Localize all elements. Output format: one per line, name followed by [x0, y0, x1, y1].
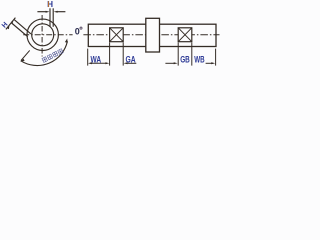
- keyway slot line left: [49, 8, 51, 26]
- label H left stem tint: [48, 1, 49, 7]
- WB leader line: [206, 62, 214, 64]
- inner circle: [32, 24, 54, 46]
- svg-text:0: 0: [75, 27, 80, 37]
- extension line shaft left end: [87, 49, 89, 66]
- outer circle: [27, 19, 58, 50]
- WA dimension line: [90, 62, 107, 64]
- WA arrow right: [105, 62, 109, 64]
- rotated keyway slot line A: [14, 20, 31, 34]
- keyway slot line right: [52, 8, 54, 27]
- angle dimension arc: [21, 41, 68, 65]
- bearing box 2 X diagonal 2: [178, 28, 192, 42]
- svg-text:GA: GA: [126, 54, 137, 64]
- bearing box 1: [110, 28, 124, 42]
- GA arrow left-pointing: [124, 62, 128, 64]
- rotated dimension arrow upper: [11, 20, 14, 23]
- svg-text:WB: WB: [194, 54, 205, 64]
- GB arrow right-pointing: [174, 62, 178, 64]
- vertical centerline: [41, 15, 43, 57]
- glyph block 2: [47, 54, 53, 60]
- dimension H arrow left-pointing: [54, 11, 58, 13]
- WA arrow left: [88, 62, 92, 64]
- GA dimension line: [126, 62, 136, 64]
- rotated keyway slot line B: [12, 23, 28, 37]
- dimension H line left segment: [37, 11, 46, 13]
- shaft body rectangle: [88, 24, 216, 46]
- angle text 角度指定 drawn as glyph blocks: [42, 49, 63, 63]
- dimension H line right segment: [57, 11, 66, 13]
- angle arc radial extension line: [21, 50, 30, 60]
- horizontal centerline right through shaft: [83, 34, 219, 36]
- horizontal centerline left of 0 label: [23, 34, 72, 36]
- svg-text:GB: GB: [180, 54, 190, 64]
- svg-text:WA: WA: [91, 54, 102, 64]
- extension line bearing1 right: [122, 43, 124, 66]
- extension line bearing2 left: [177, 43, 179, 66]
- glyph block 1: [42, 57, 48, 63]
- bearing box 2 X diagonal 1: [178, 28, 192, 42]
- center block: [146, 18, 160, 52]
- angle arc arrowhead right: [65, 39, 68, 43]
- angle arc arrowhead left: [20, 59, 24, 62]
- dimension H arrow right-pointing: [46, 11, 50, 13]
- extension line shaft right end: [215, 49, 217, 66]
- bearing box 1 X diagonal 2: [110, 28, 124, 42]
- bearing box 2: [178, 28, 192, 42]
- extension line bearing1 left: [109, 43, 111, 66]
- glyph block 3: [52, 51, 58, 57]
- degree symbol: [80, 27, 82, 29]
- rotated dimension line: [6, 18, 16, 30]
- WB arrow right-pointing: [211, 62, 215, 64]
- extension line bearing2 right: [191, 43, 193, 66]
- bearing box 1 X diagonal 1: [110, 28, 124, 42]
- GB leader line: [165, 62, 175, 64]
- glyph block 4: [58, 49, 64, 55]
- rotated dimension arrow lower: [7, 26, 9, 30]
